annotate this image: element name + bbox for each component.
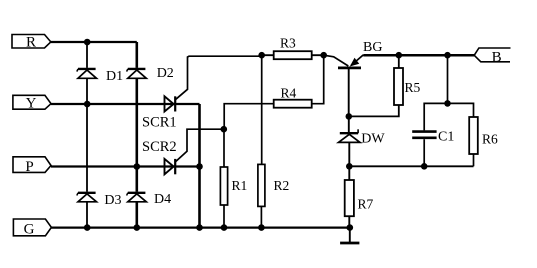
node G/D3 junction [84,224,91,231]
svg-text:R4: R4 [281,86,297,101]
wire SCR1 cathode to bus [175,103,199,105]
transistor BG base lead [324,55,349,66]
diode D3 [77,193,97,202]
wire ground stub [349,228,351,242]
resistor R4 [274,100,312,108]
wire R1 top branch to R4 [224,104,273,130]
svg-text:C1: C1 [438,130,454,145]
ground [340,242,359,245]
svg-text:DW: DW [361,132,385,147]
wire R6 top lead [448,103,474,117]
node SCR2 gate / R1 / R4 junction [221,126,228,133]
resistor R6 [469,117,478,154]
node DW/R7 junction [346,163,353,170]
svg-text:D3: D3 [104,193,121,208]
svg-text:Y: Y [26,95,37,111]
node R5 top junction [396,52,403,59]
node G/R7 junction [347,224,354,231]
wire G row [51,226,349,228]
wire R3-left to R2 column [261,55,263,164]
wire R2 bottom lead [260,206,262,227]
wire C1 top lead [424,103,447,130]
terminal B [474,48,510,65]
capacitor C1 [412,132,436,138]
wire C1 bottom lead [423,139,425,166]
thyristor SCR1 [165,96,176,111]
node R3 right junction [320,52,327,59]
resistor R3 [274,51,312,59]
svg-text:R2: R2 [274,178,290,193]
svg-text:G: G [24,221,35,237]
svg-text:D2: D2 [157,66,174,81]
terminal Y [13,95,51,111]
wire R5 leads [349,55,399,116]
resistor R7 [345,180,354,216]
svg-text:R6: R6 [482,132,498,147]
resistor R2 [258,164,265,206]
diode D4 [127,193,147,202]
wire P row left [51,165,175,167]
svg-text:SCR2: SCR2 [142,139,177,155]
wire DW bottom lead [348,142,350,166]
wire DW top lead [348,116,350,132]
wire R row [51,41,137,43]
node G/cathode-bus junction [196,224,203,231]
wire SCR2 gate [175,129,224,162]
wire D2/D4 column [136,42,139,228]
wire cathode bus column [198,104,201,228]
resistor R1 [220,167,227,205]
node G/R1 junction [221,224,228,231]
node G/R2 junction [258,224,265,231]
svg-text:D4: D4 [154,192,171,207]
wire Y row left [51,103,175,105]
resistor R5 [394,68,403,105]
zener diode DW [339,129,361,142]
diode D1 [77,69,97,78]
node C1/R6 top junction [444,100,451,107]
svg-text:B: B [492,49,502,65]
wire B branch down [447,55,449,103]
wire R1 leads [223,129,225,227]
node R/D1 junction [84,39,91,46]
wire R7 leads [348,166,350,227]
node C1 bottom junction [421,163,428,170]
svg-text:R7: R7 [358,197,374,212]
terminal G [13,219,51,237]
diode D2 [127,69,147,78]
wire R4 leads [312,55,324,103]
node P/D2 column junction [134,163,141,170]
svg-text:R1: R1 [232,178,248,193]
svg-text:BG: BG [363,40,382,55]
svg-text:D1: D1 [106,69,123,84]
node Y/D1 junction [84,101,91,108]
thyristor SCR2 [165,159,176,174]
node G/D4 junction [134,224,141,231]
wire SCR2 cathode to bus [175,165,199,167]
node collector/R5/DW junction [346,113,353,120]
terminal R [12,35,51,51]
node B branch junction [444,52,451,59]
svg-text:R: R [26,35,36,51]
wire R3 leads [262,54,324,56]
wire SCR1 gate [175,56,262,100]
svg-text:R5: R5 [405,80,421,95]
svg-text:P: P [25,159,33,175]
wire emitter to terminal B [363,54,474,57]
transistor BG [338,55,363,117]
node R3 left junction [258,52,265,59]
wire D1/D3 column [86,42,88,228]
svg-text:R3: R3 [280,35,296,50]
node P row / cathode bus junction [196,163,203,170]
terminal P [13,157,51,175]
wire bottom net DW to R6 [349,165,473,167]
svg-text:SCR1: SCR1 [142,114,177,130]
wire R6 bottom lead [473,154,475,166]
